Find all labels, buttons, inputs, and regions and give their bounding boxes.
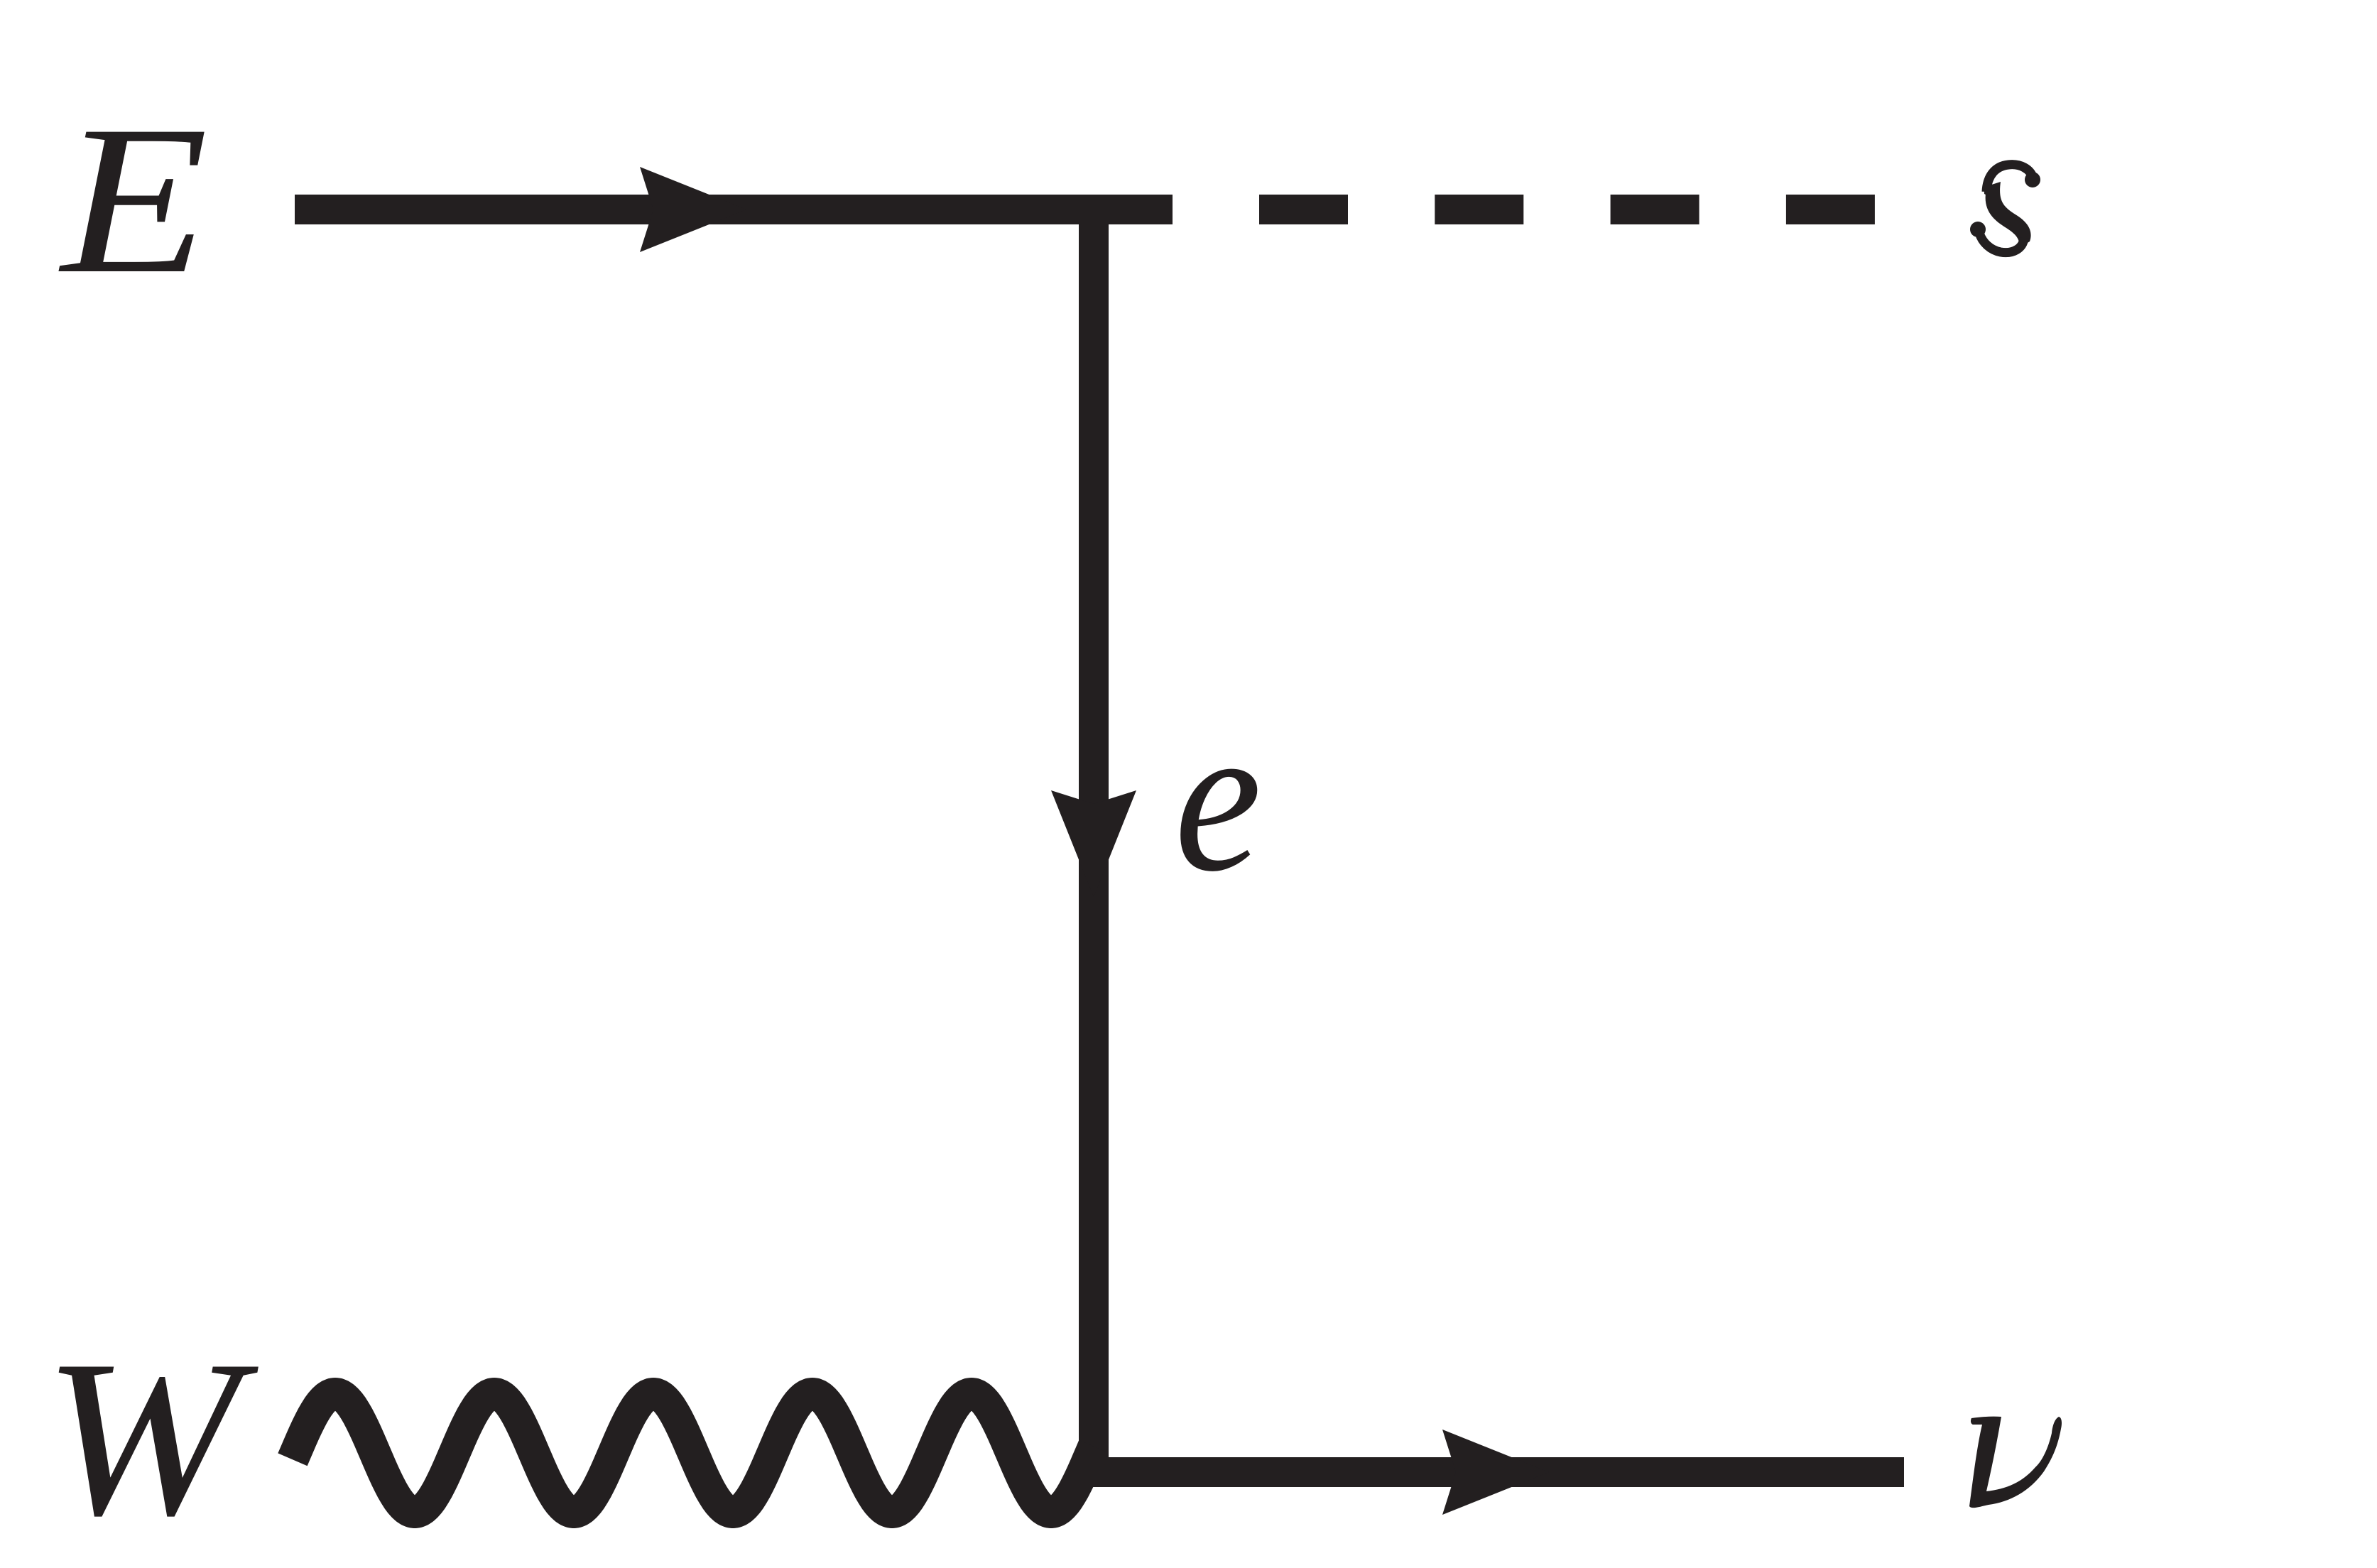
wire: outgoing neutrino line (solid) xyxy=(1079,1457,1904,1487)
svg-text:e: e xyxy=(1175,680,1262,916)
svg-text:W: W xyxy=(43,1314,262,1562)
wire: incoming E fermion line (solid) xyxy=(295,195,1173,224)
node s label xyxy=(1970,165,2040,253)
arrow on electron line (downward) xyxy=(1051,790,1136,897)
node nu label xyxy=(1969,1417,2062,1508)
svg-text:E: E xyxy=(58,82,208,318)
arrow on E line (rightward) xyxy=(640,167,746,252)
wire: internal electron propagator (vertical) xyxy=(1079,195,1109,1487)
arrow on neutrino line (rightward) xyxy=(1442,1430,1549,1515)
wire: W boson wavy (photon-style) line xyxy=(293,1394,1094,1513)
wire: outgoing s scalar line (dashed) xyxy=(1259,195,1875,224)
